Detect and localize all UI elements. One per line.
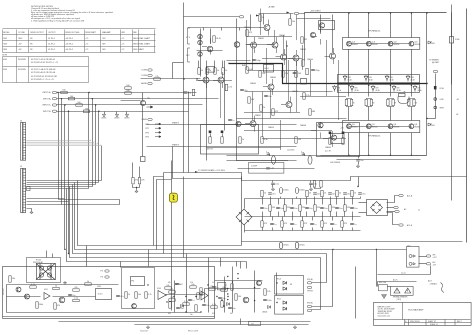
relay outer box xyxy=(27,258,61,283)
wire fuse out xyxy=(388,286,391,288)
arrow supply rail xyxy=(195,171,198,173)
svg-text:BLK: BLK xyxy=(433,262,436,264)
svg-text:IN DRIVE: IN DRIVE xyxy=(18,69,27,71)
wire out right rail xyxy=(451,5,453,201)
junction ry1 xyxy=(276,282,277,283)
wire right col xyxy=(451,13,453,37)
svg-text:2.2k: 2.2k xyxy=(267,291,271,293)
diode arrow A1 xyxy=(283,281,287,284)
wire ry v xyxy=(276,273,278,296)
svg-text:SPK: SPK xyxy=(433,254,436,256)
resistor R201 xyxy=(9,276,15,282)
resistor RX0 board xyxy=(165,285,171,289)
ground relay xyxy=(63,281,66,284)
wire rm stub b xyxy=(139,167,141,178)
wire supply top rail xyxy=(164,173,467,181)
wire chain3 d 1 xyxy=(272,228,274,231)
transistor Q208 xyxy=(132,304,137,309)
spk out jack box xyxy=(407,247,420,268)
wire chain3 d 9 xyxy=(352,228,354,231)
wire fe v9 xyxy=(183,63,185,173)
wire input drop 3 xyxy=(64,105,66,250)
resistor R33 xyxy=(301,37,308,43)
warning triangle 2 xyxy=(405,288,411,293)
svg-text:2SA906: 2SA906 xyxy=(307,58,313,61)
wire center drop 2 xyxy=(157,180,172,250)
wire q20 collector xyxy=(142,93,144,101)
junction board 15 xyxy=(237,278,238,279)
output transistor QB3 xyxy=(388,124,393,129)
terminal SPK A- xyxy=(307,286,311,288)
diode DR2 xyxy=(428,123,431,126)
svg-text:U203: U203 xyxy=(157,288,161,290)
wire QT4 collector xyxy=(411,13,413,38)
wire RE1 bot xyxy=(347,106,352,107)
wire input drop 1 xyxy=(58,93,60,200)
transistor Q9 xyxy=(310,32,315,37)
wire chain1 up 2 xyxy=(280,197,282,199)
wire board drop a xyxy=(86,246,88,267)
wire chain3 d 7 xyxy=(332,228,334,231)
junction thick 3 xyxy=(390,85,391,86)
wire gnd stub 2 xyxy=(116,112,118,115)
svg-text:J4-1: J4-1 xyxy=(251,324,254,326)
wire r22 up xyxy=(206,61,208,68)
wire cap stub 2 xyxy=(310,181,312,183)
diode D201 xyxy=(181,305,184,308)
transistor Q4 xyxy=(272,42,278,48)
resistor RYv0 board xyxy=(169,302,171,308)
capacitor CT6 xyxy=(305,207,312,210)
transistor Q15 xyxy=(331,135,336,140)
connector AC2 xyxy=(394,206,398,208)
wire cap gnd 1 xyxy=(272,185,274,188)
capacitor CT12 xyxy=(350,207,357,210)
resistor R61 xyxy=(192,89,194,95)
junction board 5 xyxy=(227,296,228,297)
wire gnd stub 1 xyxy=(104,112,106,115)
resistor R50 xyxy=(125,90,131,94)
capacitor C13 xyxy=(228,119,234,122)
box input pad A xyxy=(201,125,259,155)
connector J2 body outer xyxy=(21,169,24,213)
wire fe v5 xyxy=(320,15,322,33)
connector AC1-A xyxy=(399,194,403,196)
transistor Q2 xyxy=(251,42,257,48)
svg-text:17k: 17k xyxy=(155,76,158,78)
wire QT2 collector xyxy=(368,13,370,38)
wire chain3 v 6 xyxy=(322,217,324,221)
connector INPUT A- xyxy=(52,98,56,100)
inductor L1 box xyxy=(399,94,406,97)
wire +B to rail xyxy=(299,13,305,14)
sense blob 2 xyxy=(434,106,437,109)
svg-text:10n: 10n xyxy=(360,160,363,162)
capacitor CX4 board xyxy=(212,286,218,289)
wire chain3 v 2 xyxy=(282,217,284,221)
wire chain2 v 6 xyxy=(306,199,308,205)
svg-text:(T601): (T601) xyxy=(397,299,402,301)
resistor R203 xyxy=(53,286,59,290)
wire J2 stair link 4 xyxy=(70,186,93,188)
connector AC1-B xyxy=(399,224,403,226)
transistor Q21 xyxy=(236,121,241,126)
capacitor C204 xyxy=(218,297,225,300)
connector INPUT B+ xyxy=(52,104,56,106)
svg-text:4.7k: 4.7k xyxy=(212,304,216,306)
output transistor QT3 xyxy=(388,41,393,46)
resistor R213 xyxy=(169,289,175,293)
schematic border right xyxy=(466,9,468,243)
bridge rectifier BR2 xyxy=(236,209,252,225)
ground bus b xyxy=(293,326,296,329)
svg-text:SEE DETAIL CHART: SEE DETAIL CHART xyxy=(133,37,151,40)
resistor RT11 xyxy=(344,205,351,211)
junction board 11 xyxy=(227,288,228,289)
connector J3 body inner xyxy=(23,123,26,161)
wire +V rail top xyxy=(305,12,447,14)
resistor R202 xyxy=(30,284,36,288)
wire QT4 emitter xyxy=(411,50,413,97)
svg-text:Q+B: Q+B xyxy=(352,41,355,43)
junction board 4 xyxy=(221,299,222,300)
resistor R31 xyxy=(259,15,264,21)
svg-text:C-Line: C-Line xyxy=(401,273,406,275)
svg-text:AGND: AGND xyxy=(102,117,108,120)
capacitor CT0 xyxy=(260,207,267,210)
svg-text:5W OUT: 5W OUT xyxy=(3,287,5,295)
junction board 17 xyxy=(254,300,255,301)
junction bias row b xyxy=(196,78,197,79)
capacitor CS7 xyxy=(328,193,335,196)
wire chain3 d 2 xyxy=(282,228,284,231)
arrow wire B xyxy=(301,152,305,156)
wire mid v224 xyxy=(224,277,226,313)
wire fe h5 xyxy=(207,147,281,149)
wire bl h7 xyxy=(215,280,263,282)
svg-text:Level Wire: Level Wire xyxy=(287,150,295,152)
junction board 3 xyxy=(216,296,217,297)
wire cap gnd 3 xyxy=(358,162,360,165)
resistor R205 xyxy=(54,303,60,309)
wire chain3 d 8 xyxy=(342,228,344,231)
resistor R217 xyxy=(235,294,242,300)
wire chain3 v 5 xyxy=(312,217,314,221)
wire bl h5 xyxy=(167,294,205,296)
svg-text:Q-B: Q-B xyxy=(394,124,397,126)
wire ra2 xyxy=(222,134,224,137)
junction stair 1 xyxy=(88,92,89,93)
terminal SPK feed xyxy=(433,70,437,72)
wire ac fuse link xyxy=(377,282,379,287)
diode D2 xyxy=(199,41,202,44)
svg-text:BIAS AMP: BIAS AMP xyxy=(102,31,111,34)
svg-text:10k: 10k xyxy=(170,297,173,299)
junction jack feed xyxy=(332,249,333,250)
wire J2 bus run 2 xyxy=(27,183,333,250)
connector J4 box xyxy=(249,322,261,326)
wire front drop2 xyxy=(172,63,174,79)
wire chain2 d 5 xyxy=(300,212,302,217)
wire spk jack feed xyxy=(333,249,407,251)
wire J2 bus run 1 xyxy=(27,181,242,246)
wire c-line xyxy=(378,274,431,276)
wire thick signal trace xyxy=(229,64,427,84)
connector DCFB 2 xyxy=(142,74,153,77)
wire chain3 d 6 xyxy=(322,228,324,231)
title hline xyxy=(374,319,471,321)
svg-text:www.hafler.com: www.hafler.com xyxy=(378,315,391,317)
svg-text:4.7k: 4.7k xyxy=(228,87,232,89)
terminal OUT B xyxy=(426,263,430,265)
svg-text:Q-B: Q-B xyxy=(414,124,417,126)
svg-text:DWG 9505-B: DWG 9505-B xyxy=(410,321,419,323)
svg-text:+OUT: +OUT xyxy=(433,257,437,259)
wire J2 stair link 1 xyxy=(78,180,102,182)
wire board v2 xyxy=(186,254,188,313)
junction board 7 xyxy=(166,301,167,302)
svg-text:DRIVE WATT: DRIVE WATT xyxy=(85,31,97,34)
output group box top xyxy=(343,38,420,50)
junction ry2 xyxy=(276,302,277,303)
output transistor QB1 xyxy=(347,124,352,129)
svg-text:47u: 47u xyxy=(332,193,335,195)
wire br1 a xyxy=(387,196,399,203)
junction board 8 xyxy=(200,311,201,312)
connector J3 body outer xyxy=(21,123,24,161)
terminal SPK A+ xyxy=(307,282,311,284)
svg-text:1000u: 1000u xyxy=(299,190,305,192)
wire ac line xyxy=(378,281,417,283)
resistor RU2 xyxy=(281,221,288,227)
arrow net 2 xyxy=(287,12,290,14)
svg-text:2.2k: 2.2k xyxy=(74,298,78,300)
wire bl h2 xyxy=(7,296,41,298)
resistor R32 xyxy=(289,19,295,25)
junction drop 4 xyxy=(68,253,69,254)
wire QB4 emitter xyxy=(411,133,413,156)
svg-text:100k: 100k xyxy=(39,304,43,306)
svg-text:47k: 47k xyxy=(57,305,60,307)
transistor Q7 xyxy=(293,55,299,61)
svg-text:+75: +75 xyxy=(121,44,124,46)
wire q20 base xyxy=(121,100,141,102)
svg-text:REV-C 04/98: REV-C 04/98 xyxy=(188,331,198,333)
wire input drop 4 xyxy=(68,112,70,254)
junction thick left xyxy=(228,63,229,64)
svg-text:4.7k: 4.7k xyxy=(148,294,152,296)
output transistor QT2 xyxy=(366,41,371,46)
emitter resistor RE1b xyxy=(350,99,352,105)
capacitor C12 xyxy=(264,95,271,98)
svg-text:U201: U201 xyxy=(44,289,48,291)
junction board 19 xyxy=(232,281,233,282)
svg-text:T1: T1 xyxy=(418,210,420,212)
wire loop 4 xyxy=(240,262,242,269)
transistor Q202 xyxy=(25,294,30,299)
capacitor CY4 board xyxy=(202,304,209,307)
wire right col2 xyxy=(451,44,453,85)
svg-text:2.2k: 2.2k xyxy=(190,282,193,284)
svg-text:SEE DETAIL CHART: SEE DETAIL CHART xyxy=(133,43,151,46)
svg-text:RY-B: RY-B xyxy=(277,299,281,301)
svg-text:2SA905: 2SA905 xyxy=(270,76,276,79)
transistor Q14 xyxy=(318,123,323,128)
table2 detail chart grid xyxy=(3,57,89,83)
svg-text:+84: +84 xyxy=(456,99,459,101)
svg-text:+75: +75 xyxy=(85,49,88,51)
wire chain1 up 3 xyxy=(296,197,298,199)
svg-text:OPT4: OPT4 xyxy=(145,137,149,139)
wire br1 left1 xyxy=(359,202,367,204)
svg-text:2SA911: 2SA911 xyxy=(292,90,298,93)
svg-text:OPT3: OPT3 xyxy=(145,132,149,134)
fuse F601 box xyxy=(379,285,388,291)
junction ac drop xyxy=(376,249,377,250)
pad RA1 xyxy=(209,131,212,134)
fuse pill FA xyxy=(272,156,276,165)
wire ac junction xyxy=(430,266,432,275)
pad RA2 xyxy=(221,131,224,134)
wire chain2 d 3 xyxy=(284,212,286,217)
wire center drop 1 xyxy=(154,177,164,246)
resistor RT9 xyxy=(329,205,336,211)
svg-text:IN DRIVE: IN DRIVE xyxy=(18,59,27,61)
junction rail out xyxy=(426,83,427,84)
wire front drop xyxy=(173,62,184,64)
relay RY201 body xyxy=(37,264,56,280)
resistor R214 xyxy=(169,297,175,301)
emitter resistor RE2b xyxy=(370,99,372,105)
wire fe stub t2 xyxy=(221,28,223,31)
resistor RT1 xyxy=(269,205,276,211)
transistor Q1 xyxy=(207,46,213,52)
svg-text:D5W: D5W xyxy=(347,77,351,79)
wire relay feed 2 xyxy=(52,254,54,258)
output transistor QB4 xyxy=(409,124,414,129)
wire RE3 top xyxy=(388,99,394,100)
resistor RA1 100 1W xyxy=(209,137,211,143)
svg-text:47k: 47k xyxy=(168,282,171,284)
wire chain3 d 4 xyxy=(302,228,304,231)
wire input drop 2 xyxy=(61,99,63,205)
svg-text:1k: 1k xyxy=(263,107,265,109)
junction board 12 xyxy=(227,293,228,294)
wire bl bus2 xyxy=(59,321,311,323)
svg-text:1u: 1u xyxy=(179,284,181,286)
svg-text:+75: +75 xyxy=(121,49,124,51)
wire cap gnd 2 xyxy=(310,185,312,188)
wire q1 up xyxy=(210,29,212,44)
svg-text:1u: 1u xyxy=(192,300,194,302)
bias diode pair D6 xyxy=(350,85,354,92)
wire fe v3 xyxy=(263,14,265,25)
capacitor CF1 xyxy=(271,183,279,186)
capacitor C14 xyxy=(311,69,320,72)
wire board v3 xyxy=(208,258,210,313)
emitter resistor RE3 xyxy=(387,99,389,105)
svg-text:C7: C7 xyxy=(225,285,227,287)
junction stair 3 xyxy=(95,104,96,105)
svg-text:D5W: D5W xyxy=(410,77,414,79)
wire bl bus3 xyxy=(135,324,309,326)
transistor Q6 xyxy=(218,77,224,83)
wire supply left edge xyxy=(241,177,243,246)
svg-text:47k: 47k xyxy=(141,180,144,182)
output group box bottom xyxy=(343,121,420,133)
svg-text:10u: 10u xyxy=(354,208,357,210)
title divider xyxy=(402,303,404,320)
box bias A-1.8 xyxy=(264,65,274,73)
wire chain1 up 10 xyxy=(352,197,354,199)
resistor RU6 xyxy=(321,221,328,227)
wire J2 low 1 xyxy=(27,198,65,200)
svg-text:C.DUMP: C.DUMP xyxy=(251,166,257,168)
wire chain2 d 1 xyxy=(270,212,272,217)
connector INPUT A+ xyxy=(52,91,56,93)
resistor R60 17k xyxy=(154,76,160,80)
wire bl h4 xyxy=(7,312,201,314)
svg-text:47u: 47u xyxy=(120,296,123,298)
svg-text:+75: +75 xyxy=(85,38,88,40)
jack diode A xyxy=(409,255,412,258)
svg-text:10u: 10u xyxy=(264,208,267,210)
wire rm gnd stub xyxy=(136,188,138,190)
wire +B feed h2 xyxy=(259,13,294,15)
wire gnd stub 3 xyxy=(126,112,128,115)
resistor RU0 xyxy=(261,221,268,227)
wire input stair drop 3 xyxy=(95,105,97,185)
capacitor CU9 xyxy=(350,223,356,226)
capacitor CY1 board xyxy=(176,307,183,310)
wire QT1 emitter xyxy=(348,50,350,97)
chassis arrow 2 xyxy=(116,114,119,117)
wire out bank bottom link xyxy=(227,155,321,157)
sub board box xyxy=(122,268,155,309)
wire mesh transistor stubs xyxy=(198,20,334,148)
resistor R34 xyxy=(246,67,253,73)
svg-text:4k7: 4k7 xyxy=(230,313,233,315)
pad TP box xyxy=(141,157,146,162)
resistor R103 100 xyxy=(76,102,82,106)
box bias A-1.8 b xyxy=(207,67,215,73)
transistor Q10 xyxy=(330,53,336,59)
resistor RY2 board xyxy=(183,301,189,305)
transistor Q13 xyxy=(250,121,256,127)
resistor RB1 xyxy=(329,138,331,144)
resistor R220 xyxy=(264,289,271,295)
svg-text:TO DRIVER BOARD +/-15V REG: TO DRIVER BOARD +/-15V REG xyxy=(198,169,225,172)
wire stair drop 5 xyxy=(101,146,103,181)
wire r21 up xyxy=(198,61,200,68)
junction thick out xyxy=(426,83,427,84)
wire q20 emitter xyxy=(142,106,144,157)
wire fe h2 xyxy=(227,60,251,62)
svg-text:1k: 1k xyxy=(309,193,311,195)
connector J2 body inner xyxy=(23,169,26,213)
svg-text:2SA908: 2SA908 xyxy=(300,124,306,127)
svg-text:2SA901: 2SA901 xyxy=(258,37,264,40)
resistor R24 xyxy=(222,68,227,74)
svg-text:AGND: AGND xyxy=(115,117,121,120)
resistor R36 xyxy=(282,71,289,77)
wire br1 d xyxy=(387,213,399,225)
diode circle D3 xyxy=(198,52,203,57)
wire ac drop xyxy=(376,250,378,287)
capacitor C10 xyxy=(252,59,261,62)
wire QB2 emitter xyxy=(368,133,370,156)
wire J2 gnd xyxy=(27,209,32,211)
